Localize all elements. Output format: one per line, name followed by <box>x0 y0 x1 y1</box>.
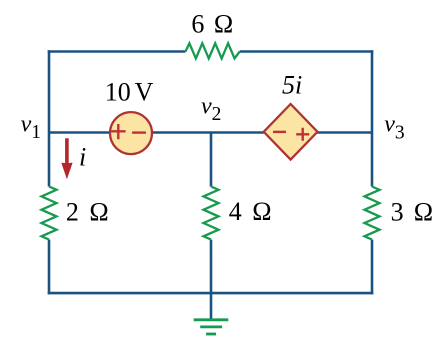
svg-text:4 Ω: 4 Ω <box>229 197 274 226</box>
wire: right vertical upper (top corner down to 3-ohm resistor) <box>371 50 374 186</box>
wire: right vertical lower (3-ohm resistor to bottom rail) <box>371 240 374 295</box>
voltage source 10 V (independent, circle) <box>110 112 152 154</box>
resistor 2 ohm (left vertical zigzag) <box>42 187 57 240</box>
wire: left vertical upper (top corner down to 2-ohm resistor) <box>48 50 51 186</box>
dependent source minus sign <box>273 131 286 133</box>
svg-text:i: i <box>79 143 86 172</box>
dependent source 5i (diamond) <box>264 104 318 160</box>
voltage source plus sign <box>111 124 126 139</box>
svg-text:5i: 5i <box>282 70 302 99</box>
svg-text:V: V <box>135 78 154 107</box>
resistor 4 ohm (middle vertical zigzag) <box>204 187 219 240</box>
current arrow i (red, pointing down) <box>61 138 72 179</box>
wire: middle vertical from v2 down to 4-ohm resistor <box>210 133 213 187</box>
svg-text:3 Ω: 3 Ω <box>391 197 435 226</box>
resistor 3 ohm (right vertical zigzag) <box>365 187 380 240</box>
wire: middle vertical from 4-ohm resistor down to ground stem <box>210 240 213 319</box>
wire: middle rail from voltage source to node v2 <box>152 131 211 134</box>
svg-text:6 Ω: 6 Ω <box>191 10 234 39</box>
dependent source plus sign <box>296 128 309 141</box>
wire: bottom rail <box>48 292 374 295</box>
wire: middle rail from dependent source to node v3 <box>317 131 372 134</box>
wire: top rail right segment <box>240 50 374 53</box>
wire: top rail left segment <box>48 50 186 53</box>
svg-text:10: 10 <box>105 78 131 107</box>
voltage source minus sign <box>132 131 146 133</box>
resistor 6 ohm (top horizontal zigzag) <box>186 43 240 58</box>
wire: middle rail from node v2 to dependent source <box>211 131 265 134</box>
wire: middle rail from node v1 to voltage source <box>49 131 111 134</box>
ground <box>194 320 229 334</box>
wire: left vertical lower (2-ohm resistor to bottom rail) <box>48 240 51 295</box>
svg-text:2 Ω: 2 Ω <box>66 197 111 226</box>
